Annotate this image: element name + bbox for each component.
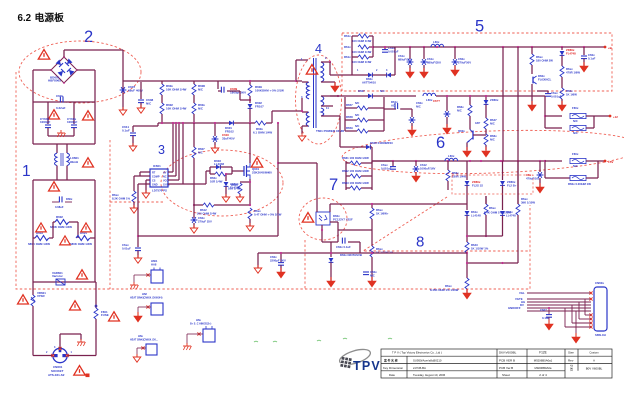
IC U601 LD7576: [150, 169, 168, 187]
inductor: [445, 158, 458, 161]
resistor: [350, 174, 361, 178]
wire: [371, 161, 373, 163]
wire: [561, 99, 563, 105]
wire: [187, 333, 203, 335]
warning triangle: [60, 236, 71, 245]
wire: [527, 292, 591, 294]
svg-text:HA8: HA8: [151, 263, 157, 267]
svg-text:100KOHM +-5% 2/1W: 100KOHM +-5% 2/1W: [255, 89, 284, 93]
node junction: [175, 122, 177, 124]
inductor: [431, 44, 444, 47]
wire: [409, 65, 411, 72]
svg-text:0.001uF: 0.001uF: [551, 95, 562, 99]
wire: [140, 171, 150, 173]
wire: [167, 183, 169, 185]
wire: [33, 281, 95, 283]
wire: [133, 176, 135, 191]
svg-text:SU950/Acer/a9cB0210: SU950/Acer/a9cB0210: [413, 359, 442, 363]
pin mark: [146, 305, 149, 308]
capacitor: [537, 172, 544, 178]
svg-text:1K 1/10W 1%: 1K 1/10W 1%: [471, 247, 489, 251]
wire: [56, 166, 58, 180]
node junction: [249, 80, 251, 82]
svg-text:0.001uF: 0.001uF: [388, 50, 399, 54]
resistor: [560, 88, 564, 99]
diode: [484, 100, 489, 104]
svg-text:Varistor: Varistor: [52, 274, 64, 278]
diode of bridge: [67, 68, 74, 75]
wire: [60, 333, 81, 335]
wire: [186, 334, 188, 344]
chassis ground: [130, 282, 138, 289]
chassis ground: [57, 130, 65, 137]
warning triangle: [77, 270, 88, 279]
resistor: [160, 84, 164, 95]
wire: [32, 102, 34, 144]
wire: [469, 116, 471, 130]
wire: [347, 74, 368, 76]
wire: [66, 166, 68, 180]
resistor: [484, 134, 488, 145]
resistor: [465, 278, 469, 289]
svg-text:+B: +B: [608, 46, 612, 50]
svg-text:N/C: N/C: [457, 109, 462, 113]
svg-text:680K OHM 1/4W: 680K OHM 1/4W: [70, 242, 92, 246]
svg-text:10R 1/4W: 10R 1/4W: [210, 180, 223, 184]
capacitor: [363, 272, 369, 275]
region 8 dashed boundary: [363, 197, 530, 251]
wire: [296, 80, 302, 82]
pin mark: [197, 332, 200, 335]
diode: [229, 121, 233, 126]
node junction: [371, 203, 373, 205]
ground filled: [463, 147, 471, 157]
capacitor CY603: [45, 125, 51, 128]
wire: [352, 35, 358, 37]
diode: [560, 51, 565, 55]
resistor: [484, 204, 488, 215]
svg-text:Key Dimension: Key Dimension: [383, 366, 404, 370]
node junction: [544, 115, 546, 117]
svg-text:TPV: TPV: [353, 359, 381, 373]
capacitor: [421, 59, 428, 65]
wire: [94, 102, 96, 144]
svg-text:T601 POWER XFMR: T601 POWER XFMR: [316, 129, 345, 133]
wire: [586, 127, 594, 129]
ground: [134, 255, 142, 263]
wire: [33, 143, 95, 145]
wire: [32, 238, 34, 282]
wire: [454, 47, 456, 59]
svg-text:0.68uF: 0.68uF: [55, 205, 64, 209]
wire: [239, 194, 241, 197]
svg-text:案 件 名 称: 案 件 名 称: [383, 359, 398, 363]
wire: [369, 46, 373, 48]
svg-text:H62: H62: [142, 292, 147, 296]
svg-text:ZD60x: ZD60x: [490, 98, 499, 102]
svg-text:2SK2645/6N60: 2SK2645/6N60: [252, 171, 272, 175]
svg-text:N/C: N/C: [355, 125, 360, 128]
svg-text:HEAT SINK(CN60X_DK...: HEAT SINK(CN60X_DK...: [130, 339, 158, 342]
node junction: [466, 235, 468, 237]
wire: [278, 162, 317, 164]
capacitor: [382, 50, 388, 53]
wire: [569, 115, 571, 117]
wire: [340, 146, 366, 148]
wire: [517, 47, 519, 161]
ground: [142, 190, 150, 198]
wire: [52, 201, 59, 203]
wire: [214, 204, 250, 206]
pin mark: [58, 347, 61, 350]
svg-text:L60x: L60x: [433, 40, 440, 44]
region 3 dashed ellipse: [161, 150, 283, 216]
capacitor: [191, 217, 198, 223]
pin mark: [589, 291, 592, 294]
node junction: [161, 122, 163, 124]
svg-text:LL4148: LL4148: [471, 214, 481, 218]
svg-text:HEAT SINK(CN60X_DK60X4): HEAT SINK(CN60X_DK60X4): [130, 297, 163, 300]
wire: [485, 145, 487, 150]
svg-text:D608 S1000MF03: D608 S1000MF03: [370, 141, 393, 145]
wire: [473, 134, 486, 136]
wire: [368, 130, 384, 132]
diode: [465, 211, 470, 215]
wire: [66, 144, 68, 153]
inductor: [423, 93, 436, 96]
node junction: [50, 69, 52, 71]
wire: [73, 128, 75, 136]
wire: [527, 307, 591, 309]
svg-text:180 OHM 2W: 180 OHM 2W: [536, 59, 553, 63]
svg-text:200 OHM 1/4W: 200 OHM 1/4W: [197, 212, 217, 216]
pin mark: [589, 317, 592, 320]
wire: [351, 36, 353, 75]
wire: [598, 160, 604, 162]
region 2 dashed ellipse: [19, 41, 141, 103]
node junction: [214, 122, 216, 124]
connector CN602: [594, 287, 607, 331]
svg-text:270uF50V: 270uF50V: [458, 61, 471, 65]
node junction: [277, 162, 279, 164]
svg-text:Tuesday, August 10, 2006: Tuesday, August 10, 2006: [413, 373, 446, 377]
wire: [210, 173, 215, 175]
chassis ground: [183, 343, 191, 350]
wire: [466, 215, 468, 242]
wire: [384, 47, 386, 49]
node junction: [371, 252, 373, 254]
wire: [321, 105, 333, 107]
ground filled: [134, 312, 142, 322]
svg-text:33uF/45V: 33uF/45V: [222, 137, 235, 141]
wire: [545, 127, 562, 129]
node junction: [480, 160, 482, 162]
svg-text:C6??: C6??: [433, 99, 440, 103]
wire: [95, 319, 97, 356]
node junction: [454, 46, 456, 48]
ground filled: [327, 277, 335, 287]
svg-text:L60x: L60x: [426, 98, 433, 102]
wire: [348, 241, 360, 243]
wire: [594, 115, 609, 117]
wire: [345, 107, 357, 109]
svg-text:N/C: N/C: [573, 164, 578, 168]
wire: [193, 158, 195, 218]
wire: [368, 119, 384, 121]
resistor: [370, 246, 374, 257]
ground: [119, 107, 127, 115]
wire: [133, 275, 135, 283]
wire: [531, 91, 533, 105]
wire: [527, 298, 591, 300]
svg-text:Size: Size: [568, 351, 574, 355]
node junction: [423, 46, 425, 48]
resistor: [31, 295, 35, 306]
wire: [322, 241, 331, 243]
ground filled: [558, 101, 566, 111]
wire: [140, 82, 142, 99]
wire: [63, 50, 65, 57]
transformer T601: [306, 82, 309, 99]
svg-text:Custom: Custom: [589, 351, 599, 355]
bridge rectifier BD601: [51, 57, 77, 83]
node junction: [372, 46, 374, 48]
svg-text:0.01uF: 0.01uF: [122, 247, 131, 251]
wire: [527, 310, 591, 312]
wire: [372, 160, 545, 162]
svg-text:FR107: FR107: [255, 105, 264, 109]
wire: [345, 161, 347, 163]
wire: [33, 101, 95, 103]
resistor: [468, 105, 472, 116]
node junction: [466, 252, 468, 254]
wire: [447, 181, 449, 190]
svg-text:ATS-021-S2: ATS-021-S2: [48, 373, 65, 377]
wire: [193, 114, 195, 123]
svg-text:VCC: VCC: [163, 180, 168, 183]
svg-text:R602: R602: [56, 215, 63, 219]
node junction: [446, 95, 448, 97]
wire: [361, 162, 372, 164]
svg-text:D6V:V600BL: D6V:V600BL: [499, 351, 517, 355]
resistor: [357, 118, 368, 122]
wire: [575, 311, 577, 336]
svg-text:IC601: IC601: [153, 164, 161, 168]
svg-text:90mH: 90mH: [70, 160, 78, 164]
wire: [123, 80, 296, 82]
wire: [194, 204, 203, 206]
resistor: [248, 85, 252, 96]
svg-text:PCB VER B: PCB VER B: [499, 359, 515, 363]
region 4 dashed ellipse: [296, 55, 342, 144]
svg-text:7: 7: [329, 176, 338, 194]
wire: [436, 95, 545, 97]
wire: [296, 59, 307, 61]
svg-text:FUSE: FUSE: [101, 313, 109, 317]
wire: [345, 119, 357, 121]
wire: [214, 142, 216, 148]
wire: [122, 50, 124, 80]
wire: [220, 166, 232, 168]
wire: [372, 95, 416, 97]
svg-text:270uF 25V: 270uF 25V: [198, 220, 212, 224]
wire: [301, 98, 303, 111]
wire: [302, 111, 308, 113]
svg-text:FL4748: FL4748: [566, 52, 576, 56]
svg-text:0.001uF: 0.001uF: [381, 167, 392, 171]
svg-text:6.1 OHM 1/4W: 6.1 OHM 1/4W: [253, 131, 272, 135]
wire: [172, 123, 174, 172]
ground filled: [368, 277, 376, 287]
wire: [400, 108, 412, 110]
zener group dashed box: [452, 175, 533, 194]
svg-text:S6W-XH: S6W-XH: [595, 333, 606, 337]
wire: [446, 96, 448, 111]
svg-text:6.2: 6.2: [18, 13, 32, 24]
node junction: [182, 122, 184, 124]
node junction: [409, 46, 411, 48]
wire: [277, 123, 279, 236]
wire: [134, 274, 151, 276]
heatsink H601: [151, 270, 163, 283]
svg-text:680K OHM 1/4W: 680K OHM 1/4W: [28, 242, 50, 246]
wire: [33, 179, 95, 181]
node junction: [561, 46, 563, 48]
MOSFET Q601: [243, 166, 245, 176]
wire: [564, 308, 566, 327]
wire: [547, 91, 549, 93]
svg-text:R61x: R61x: [344, 45, 351, 49]
resistor: [132, 191, 136, 202]
resistor: [94, 308, 98, 319]
resistor: [530, 54, 534, 65]
pin mark: [589, 297, 592, 300]
diode: [500, 181, 505, 185]
svg-text:电源板: 电源板: [35, 11, 65, 24]
node junction: [485, 235, 487, 237]
wire: [539, 178, 541, 187]
capacitor: [546, 315, 552, 318]
wire: [33, 237, 35, 239]
capacitor: [395, 103, 398, 109]
wire: [371, 219, 373, 230]
wire: [193, 123, 195, 147]
svg-text:L60x: L60x: [448, 154, 455, 158]
wire: [226, 173, 232, 175]
capacitor: [59, 196, 62, 202]
wire: [586, 115, 594, 117]
svg-text:2200pF 2KV: 2200pF 2KV: [270, 259, 286, 263]
wire: [423, 47, 425, 59]
wire: [466, 161, 468, 180]
wire: [193, 223, 195, 228]
wire: [94, 238, 96, 282]
wire: [571, 305, 573, 323]
wire: [225, 174, 227, 181]
fuse: [570, 158, 586, 163]
wire: [32, 180, 34, 238]
wire: [334, 82, 336, 86]
svg-text:HV: HV: [163, 172, 167, 175]
wire: [485, 196, 487, 204]
heatsink H602: [151, 303, 163, 315]
wire: [48, 135, 74, 137]
warning triangle: [306, 65, 317, 75]
wire: [447, 161, 449, 170]
svg-text:3: 3: [158, 143, 165, 157]
wire: [502, 47, 504, 161]
wire: [466, 253, 468, 278]
fuse: [570, 125, 586, 130]
svg-text:0.1uF: 0.1uF: [122, 129, 130, 133]
svg-text:V7SR: V7SR: [37, 294, 45, 298]
region 1 dashed boundary: [16, 72, 530, 289]
wire: [537, 90, 548, 92]
wire: [271, 111, 273, 123]
wire: [249, 96, 251, 103]
wire: [90, 237, 95, 239]
wire: [548, 317, 550, 324]
wire: [346, 187, 350, 189]
ground filled: [331, 82, 339, 92]
svg-text:N/C: N/C: [573, 119, 578, 123]
wire: [134, 175, 150, 177]
svg-text:N/C: N/C: [370, 274, 375, 278]
wire: [321, 61, 330, 63]
wire: [193, 95, 195, 103]
resistor: [358, 45, 369, 49]
wire: [266, 122, 272, 124]
wire: [346, 175, 350, 177]
wire: [307, 59, 308, 61]
resistor: [192, 103, 196, 114]
svg-text:680uF/35U: 680uF/35U: [398, 58, 412, 62]
winding: [67, 153, 70, 166]
wire: [168, 179, 179, 181]
svg-text:DV: DV: [520, 303, 524, 307]
region 1 dashed inner boundary: [109, 140, 111, 289]
svg-text:PCB Ver.B: PCB Ver.B: [499, 366, 513, 370]
wire: [517, 161, 519, 204]
diode: [224, 182, 229, 186]
ground filled: [580, 62, 588, 72]
wire: [33, 69, 51, 71]
capacitor: [138, 100, 144, 103]
wire: [466, 143, 468, 151]
wire: [352, 56, 358, 58]
diode: [248, 104, 253, 108]
wire: [361, 187, 372, 189]
wire: [56, 144, 58, 153]
svg-text:H6x: H6x: [196, 318, 201, 322]
svg-text:页: 页: [570, 368, 573, 372]
wire: [502, 185, 504, 210]
wire: [59, 334, 61, 348]
varistor VAR601: [56, 279, 65, 285]
ground filled: [277, 268, 285, 278]
wire: [280, 265, 282, 272]
resistor: [160, 103, 164, 114]
svg-text:0.1uF: 0.1uF: [542, 316, 550, 320]
ground: [211, 145, 219, 153]
node junction: [193, 122, 195, 124]
node junction: [469, 160, 471, 162]
pin mark: [589, 321, 592, 324]
wire: [321, 81, 335, 83]
wire: [585, 314, 591, 316]
svg-text:10K 1/4W: 10K 1/4W: [228, 187, 241, 191]
opto coupler PC601: [316, 212, 330, 225]
